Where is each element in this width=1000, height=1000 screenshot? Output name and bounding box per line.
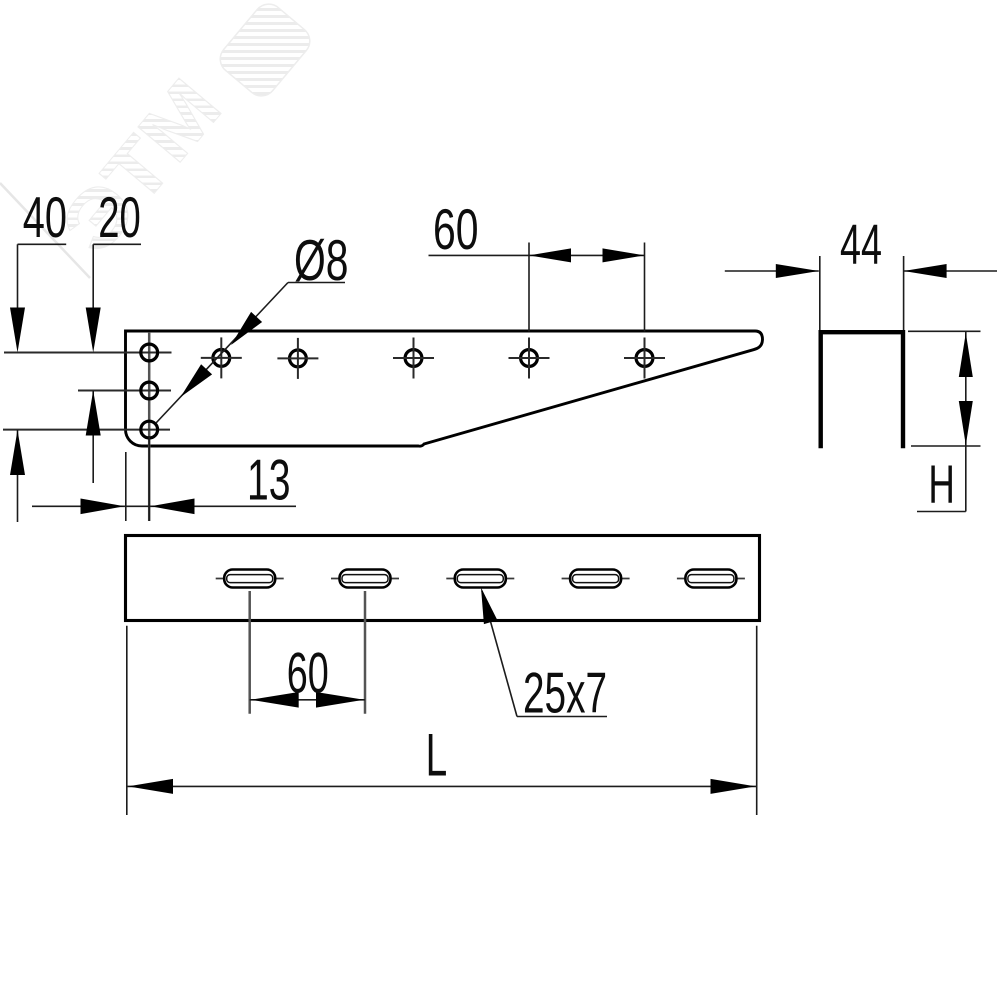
- svg-text:20: 20: [98, 186, 141, 250]
- watermark ETM logo: [0, 0, 316, 278]
- hole row 3: [277, 338, 318, 379]
- hole left column 2: [141, 382, 158, 399]
- dimension 60 top: [429, 198, 645, 332]
- hole left column 1: [141, 344, 158, 361]
- plate outline (side view): [126, 331, 763, 446]
- extension line y=429.6: [3, 429, 170, 431]
- svg-text:60: 60: [433, 198, 479, 262]
- dimension 40: [10, 186, 67, 522]
- bottom view plate rectangle: [126, 536, 760, 621]
- hole row 5: [509, 338, 550, 379]
- dimension H: [908, 331, 981, 514]
- slot 25x7 #3: [446, 570, 514, 588]
- svg-text:40: 40: [23, 186, 67, 250]
- dimension 13: [32, 437, 296, 521]
- dimension 44: [725, 213, 997, 330]
- hole left column 3: [141, 421, 158, 438]
- slot 25x7 #5: [677, 570, 745, 588]
- svg-text:L: L: [426, 722, 448, 789]
- slot 25x7 #1: [216, 570, 284, 588]
- dimension 60 bottom: [250, 591, 365, 714]
- hole row 6: [624, 338, 665, 379]
- svg-text:44: 44: [840, 213, 882, 276]
- extension line y=390.5: [78, 390, 171, 392]
- svg-text:60: 60: [287, 642, 329, 706]
- slot 25x7 #4: [562, 570, 630, 588]
- svg-text:Ø8: Ø8: [294, 229, 349, 293]
- svg-text:13: 13: [247, 449, 291, 513]
- svg-text:H: H: [928, 455, 955, 514]
- channel profile section: [821, 332, 903, 446]
- dimension L: [127, 626, 757, 815]
- slot 25x7 #2: [331, 570, 399, 588]
- leader slot size 25x7: [481, 588, 607, 726]
- hole row 2: [201, 337, 242, 378]
- dimension 20: [86, 186, 141, 483]
- extension line y=352.5: [4, 352, 172, 354]
- leader diameter 8: [156, 229, 349, 423]
- centerline left hole column: [148, 332, 151, 521]
- svg-text:25x7: 25x7: [523, 662, 607, 726]
- hole row 4: [393, 338, 434, 379]
